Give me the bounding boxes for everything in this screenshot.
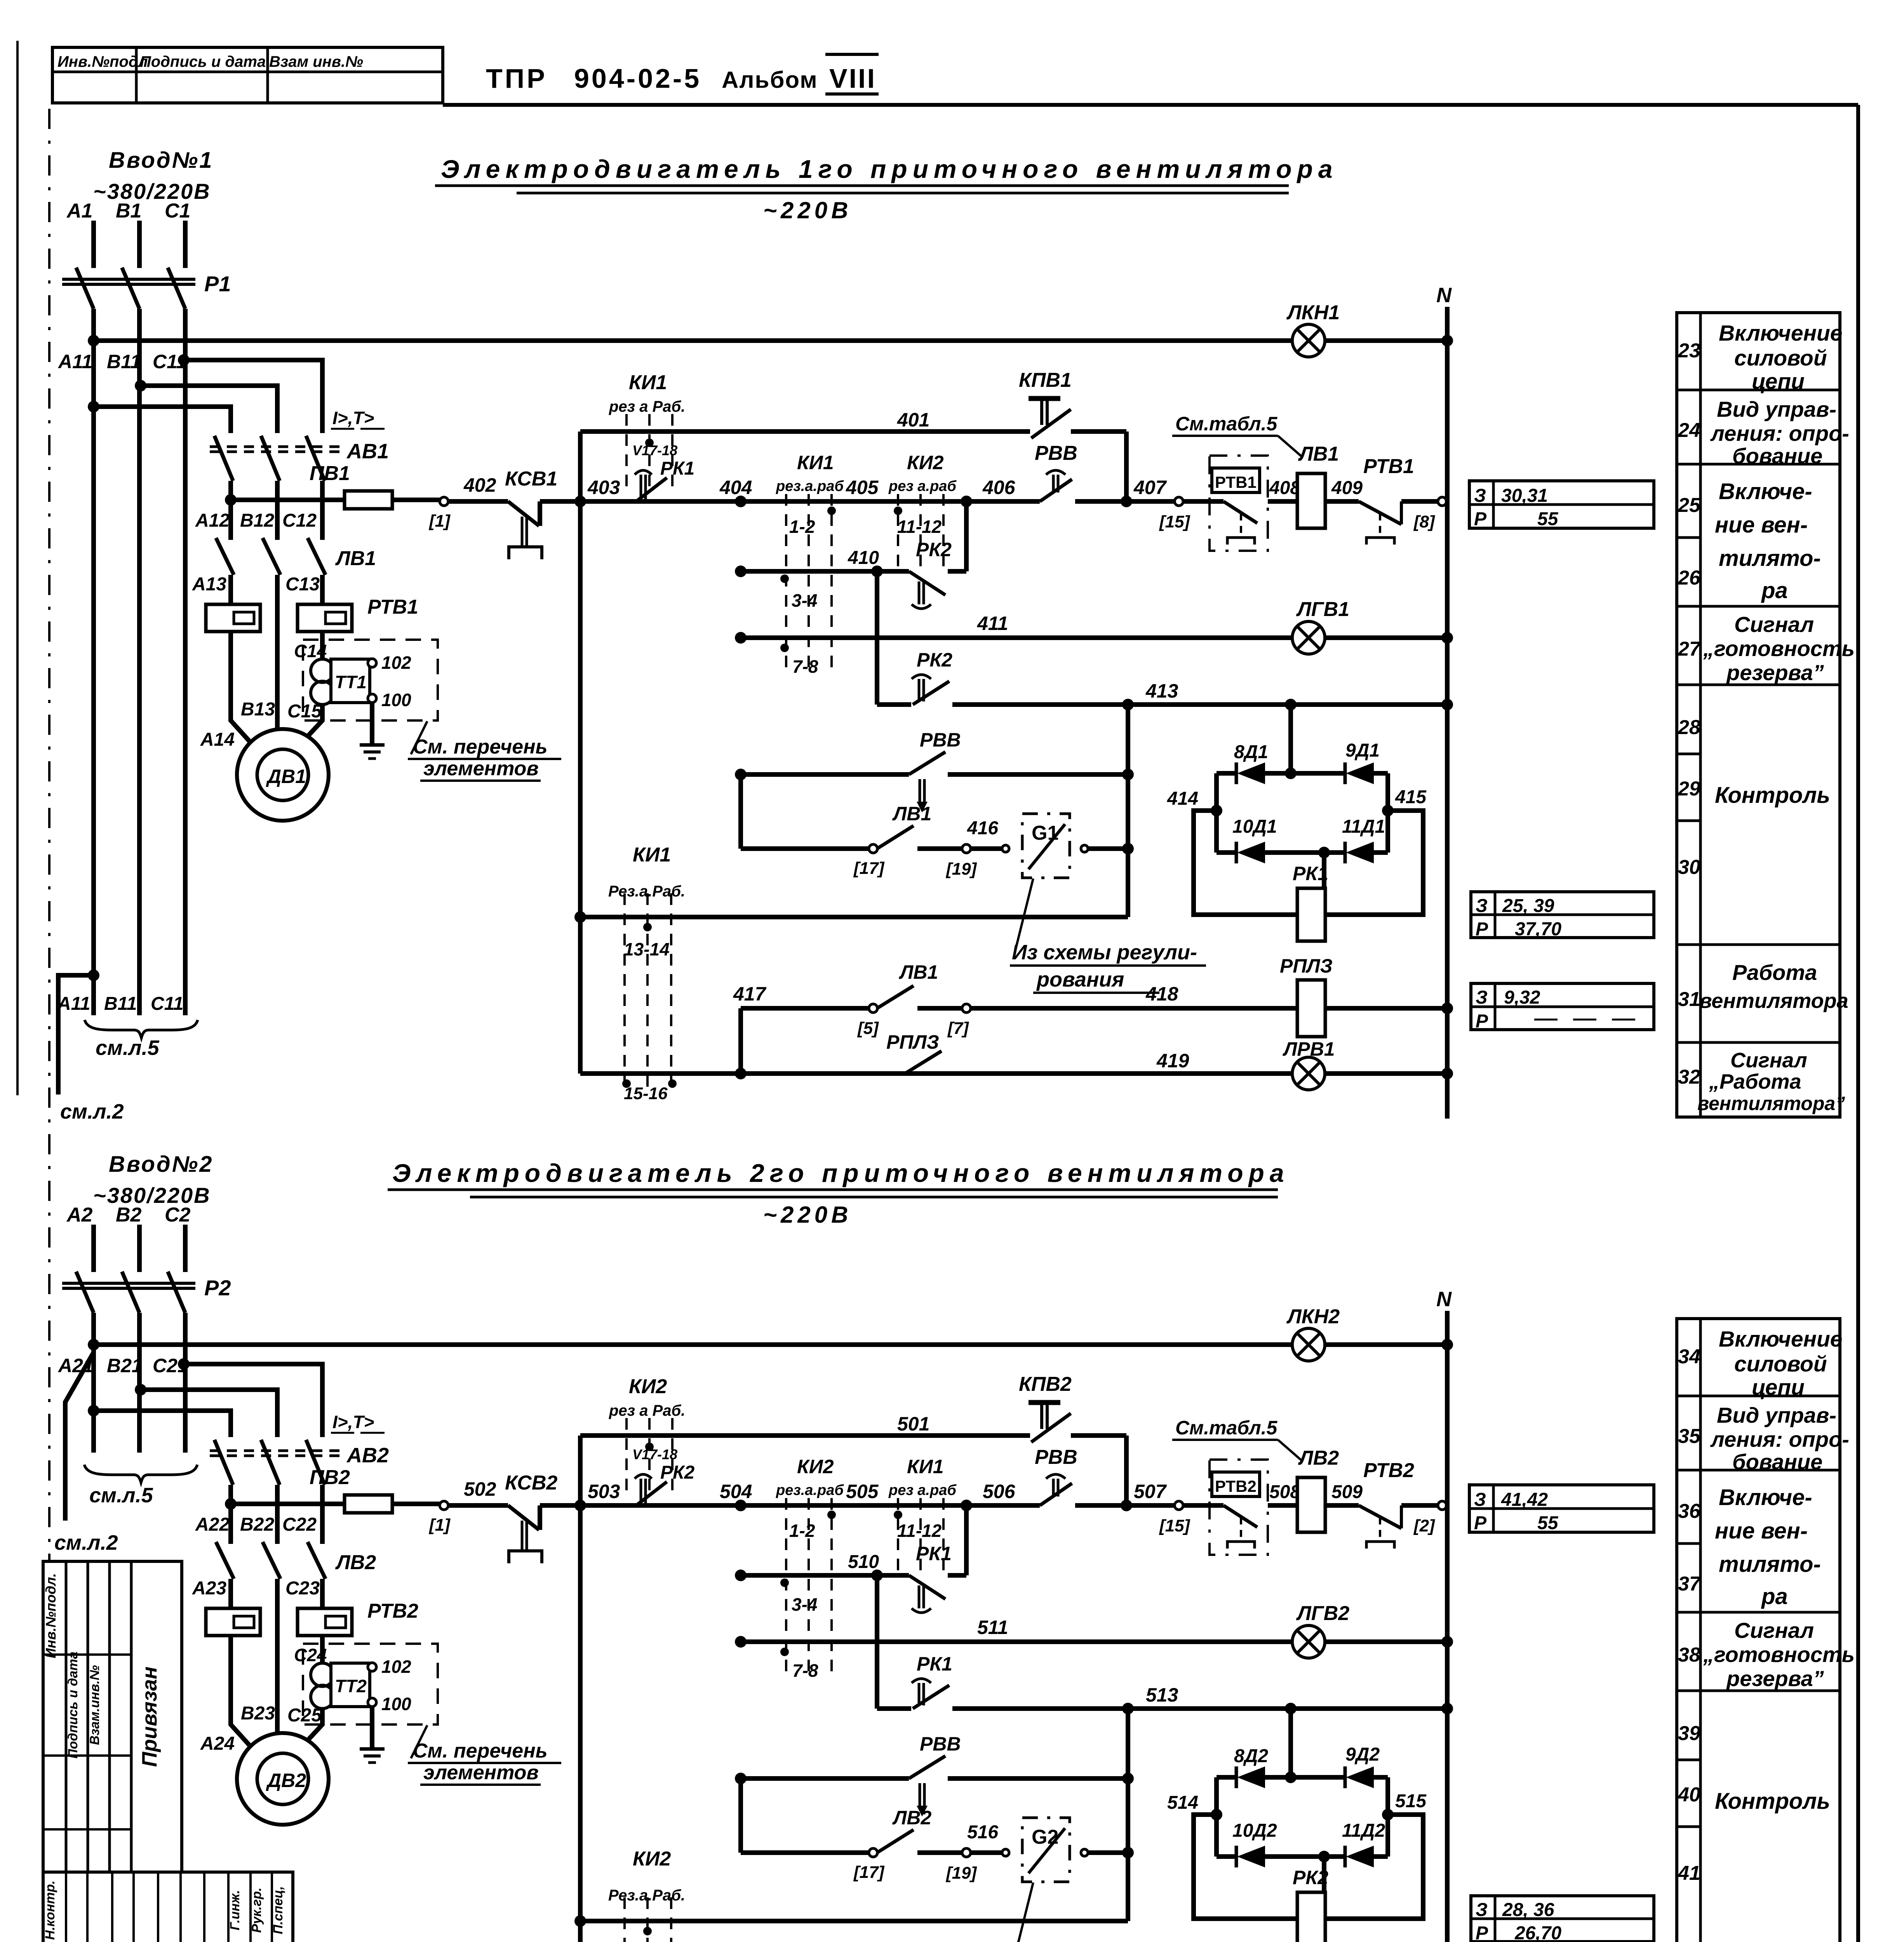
svg-text:резерва”: резерва”: [1726, 660, 1824, 685]
terminal 102: [368, 1667, 370, 1671]
wire B tap to breaker: [141, 1390, 277, 1437]
svg-text:РВВ: РВВ: [1035, 442, 1077, 465]
svg-text:ления: опро-: ления: опро-: [1710, 1427, 1849, 1451]
svg-text:11-12: 11-12: [897, 517, 942, 537]
svg-text:А14: А14: [200, 729, 235, 750]
svg-text:КПВ2: КПВ2: [1019, 1373, 1072, 1396]
wire rung 413: [875, 1575, 879, 1709]
svg-text:КИ1: КИ1: [797, 452, 834, 473]
svg-text:АВ1: АВ1: [346, 440, 389, 463]
left sheet edge line: [16, 41, 19, 1095]
svg-text:ЛВ1: ЛВ1: [335, 547, 376, 570]
svg-text:413: 413: [1145, 680, 1178, 702]
ref box 41,42: [1469, 1485, 1654, 1532]
diode 10Д1: [1235, 842, 1238, 863]
svg-text:31: 31: [1678, 988, 1700, 1011]
svg-text:АВ2: АВ2: [346, 1444, 389, 1467]
wire right drop: [1126, 705, 1130, 917]
svg-text:36: 36: [1678, 1500, 1701, 1523]
svg-text:32: 32: [1678, 1066, 1700, 1088]
wire phase stubs A B C: [91, 221, 96, 268]
svg-text:1-2: 1-2: [789, 517, 815, 537]
lamp ЛГВ1: [1292, 621, 1325, 654]
ref box 9,32: [1471, 983, 1654, 1030]
brace see sheet 5 s2: [84, 1465, 197, 1483]
svg-text:Из схемы регули-: Из схемы регули-: [1012, 941, 1197, 964]
wire C tap to breaker: [184, 360, 322, 433]
wire rung 413: [875, 571, 879, 705]
svg-text:505: 505: [846, 1481, 879, 1502]
svg-text:КИ1: КИ1: [629, 371, 667, 394]
svg-text:401: 401: [897, 409, 929, 431]
svg-text:[1]: [1]: [428, 1516, 451, 1535]
svg-text:V17-18: V17-18: [632, 1446, 677, 1462]
svg-text:26: 26: [1678, 567, 1701, 589]
svg-text:В22: В22: [240, 1514, 274, 1535]
node 515: [1382, 1809, 1394, 1820]
svg-text:ЛВ1: ЛВ1: [899, 961, 938, 983]
svg-text:КИ2: КИ2: [797, 1456, 834, 1477]
svg-text:КСВ2: КСВ2: [505, 1472, 557, 1494]
wire up link: [964, 1505, 969, 1575]
svg-text:В12: В12: [240, 510, 274, 531]
wire bridge bottom row: [1217, 1854, 1236, 1859]
wire main rung: [580, 499, 1040, 504]
svg-text:Инв.№подл.: Инв.№подл.: [43, 1573, 59, 1658]
svg-text:ДВ1: ДВ1: [266, 766, 306, 787]
diode 10Д2: [1235, 1846, 1238, 1867]
svg-text:25, 39: 25, 39: [1502, 896, 1554, 916]
relay contact РТВ2 in box: [1210, 1460, 1268, 1555]
svg-text:РВВ: РВВ: [1035, 1446, 1077, 1469]
svg-text:30,31: 30,31: [1501, 486, 1548, 506]
node 404: [735, 496, 747, 507]
callout from regulator: [1015, 1883, 1033, 1942]
svg-text:РТВ1: РТВ1: [1215, 473, 1257, 491]
svg-text:Включение: Включение: [1719, 1327, 1843, 1352]
right function table: [1677, 1319, 1840, 1942]
svg-text:Р: Р: [1476, 1923, 1488, 1942]
svg-text:39: 39: [1678, 1722, 1700, 1745]
dashed element box: [303, 1644, 438, 1724]
svg-text:[1]: [1]: [428, 512, 451, 531]
svg-text:В2: В2: [116, 1204, 142, 1226]
svg-text:С12: С12: [282, 510, 317, 531]
svg-text:Р: Р: [1474, 1513, 1487, 1533]
wire see sheet 2 link: [88, 969, 99, 981]
svg-text:26,70: 26,70: [1514, 1923, 1561, 1942]
node 514: [1211, 1809, 1222, 1820]
svg-text:см.л.5: см.л.5: [96, 1036, 160, 1060]
svg-text:504: 504: [720, 1481, 752, 1502]
wire 401 top: [580, 1433, 1030, 1438]
svg-text:РТВ2: РТВ2: [1215, 1477, 1257, 1495]
node С21: [178, 1358, 190, 1370]
lamp ЛКН1: [1292, 324, 1325, 357]
svg-text:Р2: Р2: [204, 1276, 231, 1300]
svg-text:Взам.инв.№: Взам.инв.№: [87, 1665, 102, 1745]
svg-text:402: 402: [463, 474, 496, 496]
wire bridge top row: [1217, 771, 1236, 776]
svg-text:[15]: [15]: [1159, 1516, 1190, 1535]
svg-text:ления: опро-: ления: опро-: [1710, 421, 1849, 445]
svg-text:цепи: цепи: [1752, 1375, 1805, 1400]
svg-text:Работа: Работа: [1732, 960, 1817, 985]
svg-text:403: 403: [587, 477, 620, 498]
svg-text:502: 502: [464, 1478, 496, 1500]
terminal circle on N: [1438, 1501, 1446, 1510]
svg-text:Г.инж.: Г.инж.: [228, 1890, 242, 1930]
svg-text:Включе-: Включе-: [1719, 1485, 1812, 1510]
svg-text:~380/220В: ~380/220В: [93, 1183, 211, 1208]
svg-text:510: 510: [848, 1552, 879, 1572]
svg-text:41: 41: [1678, 1862, 1700, 1885]
terminal 100: [368, 1698, 376, 1707]
left dash-dot frame line: [48, 109, 50, 1560]
svg-text:РК2: РК2: [916, 539, 952, 560]
svg-text:А22: А22: [195, 1514, 230, 1535]
wire lamp feed: [88, 1405, 99, 1416]
svg-text:Подпись и дата: Подпись и дата: [66, 1651, 80, 1759]
wire rung 13-14: [574, 911, 586, 923]
contact РВВ delayed: [909, 752, 945, 774]
svg-text:цепи: цепи: [1752, 369, 1805, 394]
right frame line: [1856, 105, 1860, 1942]
terminal [1]: [440, 497, 448, 506]
node 506: [961, 1500, 972, 1511]
wire rung 417: [738, 1008, 743, 1074]
svg-text:501: 501: [897, 1413, 929, 1435]
svg-text:КИ2: КИ2: [633, 1848, 671, 1870]
wire 402 feed: [231, 498, 345, 502]
svg-text:А2: А2: [66, 1204, 93, 1226]
svg-text:РК1: РК1: [917, 1653, 952, 1675]
svg-text:[19]: [19]: [945, 860, 977, 879]
disconnect switch Р1: [76, 268, 94, 309]
svg-text:24: 24: [1678, 419, 1700, 442]
svg-text:417: 417: [733, 983, 767, 1005]
contactor coil ЛВ2: [1297, 1477, 1325, 1532]
svg-text:П.спец,: П.спец,: [271, 1886, 285, 1934]
wire bridge feed: [1288, 1709, 1293, 1777]
svg-text:25: 25: [1678, 494, 1701, 517]
wire phase buses: [91, 309, 96, 1015]
svg-text:Подпись и дата: Подпись и дата: [140, 53, 266, 70]
node feed junction: [225, 494, 237, 506]
node 504: [735, 1500, 747, 1511]
wire 402 feed: [231, 1502, 345, 1506]
wire rung G: [738, 774, 743, 849]
svg-text:тилято-: тилято-: [1719, 1552, 1821, 1577]
svg-text:ние вен-: ние вен-: [1715, 1518, 1808, 1544]
svg-text:410: 410: [848, 548, 879, 568]
thermal relay heaters РТВ2: [206, 1608, 260, 1636]
node 406: [961, 496, 972, 507]
callout see element list: [411, 721, 427, 754]
wire to signal lamp: [94, 338, 1292, 343]
svg-text:См. перечень: См. перечень: [413, 1740, 548, 1762]
node 414: [1211, 805, 1222, 816]
svg-text:511: 511: [977, 1617, 1008, 1638]
svg-text:516: 516: [967, 1822, 998, 1843]
node 415: [1382, 805, 1394, 816]
diode 11Д1: [1344, 842, 1347, 863]
wire main rung: [580, 1503, 1040, 1508]
contactor power contacts ЛВ2: [216, 1542, 234, 1579]
node 403: [574, 496, 586, 507]
svg-text:G1: G1: [1032, 822, 1058, 844]
svg-text:514: 514: [1167, 1792, 1198, 1813]
svg-text:100: 100: [381, 1694, 411, 1714]
svg-text:см.л.5: см.л.5: [89, 1484, 153, 1507]
svg-text:ТТ2: ТТ2: [335, 1676, 367, 1696]
svg-text:7-8: 7-8: [792, 1660, 818, 1681]
svg-text:В21: В21: [107, 1355, 143, 1376]
svg-text:28: 28: [1678, 716, 1700, 739]
wire rung 411: [735, 632, 747, 644]
svg-text:~220В: ~220В: [763, 197, 852, 223]
brace see sheet 5: [85, 1020, 198, 1038]
svg-text:Н.контр.: Н.контр.: [43, 1881, 57, 1940]
node feed junction: [225, 1498, 237, 1510]
wire A tap to breaker: [94, 407, 231, 433]
svg-text:ЛКН2: ЛКН2: [1286, 1305, 1340, 1328]
motor ДВ2: [237, 1733, 329, 1825]
wire bridge feed: [1288, 705, 1293, 773]
svg-text:11Д2: 11Д2: [1342, 1820, 1385, 1841]
svg-text:С13: С13: [285, 574, 320, 595]
svg-text:13-14: 13-14: [624, 939, 670, 959]
svg-text:В23: В23: [241, 1703, 275, 1724]
svg-text:3-4: 3-4: [792, 590, 817, 611]
svg-text:27: 27: [1678, 638, 1701, 660]
svg-text:37,70: 37,70: [1515, 919, 1561, 940]
terminal 100: [368, 694, 376, 703]
svg-text:[19]: [19]: [945, 1864, 977, 1883]
svg-text:N: N: [1436, 284, 1452, 307]
svg-text:9,32: 9,32: [1504, 987, 1540, 1008]
svg-text:ТПР: ТПР: [486, 63, 547, 94]
svg-text:ТТ1: ТТ1: [335, 672, 367, 692]
svg-text:тилято-: тилято-: [1719, 546, 1821, 571]
svg-text:29: 29: [1678, 778, 1700, 800]
wire B tap to breaker: [141, 386, 277, 433]
svg-text:Инв.№подл: Инв.№подл: [57, 53, 148, 70]
svg-text:ра: ра: [1761, 1584, 1788, 1609]
svg-text:404: 404: [719, 477, 752, 498]
diode 8Д1: [1235, 762, 1238, 784]
svg-text:9Д2: 9Д2: [1345, 1744, 1380, 1765]
svg-text:506: 506: [983, 1481, 1016, 1502]
wire rung 410: [735, 1570, 747, 1581]
svg-text:См. перечень: См. перечень: [413, 736, 548, 758]
ground: [370, 703, 374, 745]
disconnect switch Р2: [76, 1272, 94, 1313]
svg-text:РК2: РК2: [660, 1462, 695, 1483]
svg-text:[5]: [5]: [857, 1019, 879, 1038]
svg-text:Электродвигатель 1го приточног: Электродвигатель 1го приточного вентилят…: [441, 155, 1338, 183]
svg-text:См.табл.5: См.табл.5: [1175, 413, 1278, 435]
contactor coil ЛВ1: [1297, 473, 1325, 528]
wire rung 13-14: [574, 1915, 586, 1927]
svg-text:405: 405: [846, 477, 879, 498]
svg-text:А12: А12: [195, 510, 230, 531]
svg-text:8Д1: 8Д1: [1234, 742, 1268, 762]
svg-text:I˃,Т˃: I˃,Т˃: [332, 1412, 374, 1432]
svg-text:15-16: 15-16: [624, 1084, 668, 1103]
svg-text:N: N: [1436, 1288, 1452, 1311]
svg-text:3-4: 3-4: [792, 1594, 817, 1615]
svg-text:10Д1: 10Д1: [1232, 816, 1277, 837]
svg-text:Р: Р: [1476, 1011, 1488, 1032]
right function table: [1677, 313, 1840, 1117]
wire rung 411: [735, 1636, 747, 1648]
svg-text:8Д2: 8Д2: [1234, 1746, 1268, 1766]
dashed element box: [303, 640, 438, 720]
svg-text:ЛКН1: ЛКН1: [1286, 301, 1340, 324]
svg-text:КИ1: КИ1: [907, 1456, 944, 1477]
svg-text:В13: В13: [241, 699, 275, 720]
svg-text:В1: В1: [116, 200, 141, 222]
lamp ЛКН2: [1292, 1328, 1325, 1361]
svg-text:вентилятора”: вентилятора”: [1697, 1093, 1845, 1114]
svg-text:38: 38: [1678, 1644, 1700, 1666]
svg-text:102: 102: [381, 653, 411, 673]
ground: [370, 1707, 374, 1749]
svg-text:РТВ2: РТВ2: [367, 1600, 418, 1622]
svg-text:С22: С22: [282, 1514, 317, 1535]
wire rung РВВ: [735, 769, 747, 780]
svg-text:40: 40: [1678, 1784, 1700, 1806]
svg-text:ние вен-: ние вен-: [1715, 512, 1808, 538]
wire rung G: [738, 1778, 743, 1853]
svg-text:30: 30: [1678, 856, 1700, 879]
svg-text:ПВ2: ПВ2: [310, 1466, 350, 1489]
svg-text:КИ2: КИ2: [907, 452, 944, 473]
wire to signal lamp: [94, 1342, 1292, 1347]
svg-text:Контроль: Контроль: [1715, 1789, 1830, 1814]
svg-text:„готовность: „готовность: [1703, 1642, 1855, 1667]
top horizontal frame line: [443, 103, 1858, 107]
svg-text:Привязан: Привязан: [138, 1667, 161, 1767]
terminal [1]: [440, 1501, 448, 1510]
wire breaker legs: [228, 1485, 233, 1544]
svg-text:[2]: [2]: [1413, 1516, 1435, 1535]
svg-text:ПВ1: ПВ1: [310, 462, 350, 485]
lamp ЛГВ2: [1292, 1625, 1325, 1658]
svg-text:РТВ2: РТВ2: [1363, 1459, 1414, 1482]
svg-text:В11: В11: [107, 351, 141, 372]
contactor power contacts ЛВ1: [216, 538, 234, 575]
svg-text:ЛВ1: ЛВ1: [892, 803, 931, 825]
svg-text:рез.а.раб: рез.а.раб: [776, 1482, 844, 1498]
svg-text:ЛВ2: ЛВ2: [892, 1807, 931, 1829]
lamp ЛРВ1: [1292, 1057, 1325, 1090]
svg-text:Ввод№1: Ввод№1: [109, 148, 213, 173]
svg-text:вентилятора: вентилятора: [1699, 989, 1848, 1013]
svg-text:407: 407: [1133, 477, 1167, 498]
svg-text:ЛВ2: ЛВ2: [1298, 1447, 1339, 1469]
wire left rail: [578, 1436, 583, 1942]
wire motor leads: [231, 1636, 256, 1753]
svg-text:КПВ1: КПВ1: [1019, 369, 1072, 392]
svg-text:37: 37: [1678, 1573, 1701, 1595]
svg-text:силовой: силовой: [1734, 346, 1827, 371]
svg-text:ЛВ1: ЛВ1: [1298, 443, 1339, 465]
svg-text:904-02-5: 904-02-5: [574, 63, 701, 94]
circuit breaker АВ2: [214, 1440, 233, 1485]
regulator box G1: [1022, 814, 1070, 878]
wire phase buses: [91, 1313, 96, 1453]
svg-text:РТВ1: РТВ1: [1363, 455, 1414, 478]
relay contact РТВ1 in box: [1210, 456, 1268, 551]
svg-text:РК2: РК2: [1293, 1867, 1328, 1888]
svg-text:VIII: VIII: [829, 63, 876, 94]
svg-text:34: 34: [1678, 1345, 1700, 1368]
svg-text:ЛГВ1: ЛГВ1: [1296, 598, 1349, 621]
diode 11Д2: [1344, 1846, 1347, 1867]
svg-text:С2: С2: [165, 1204, 191, 1226]
svg-text:11-12: 11-12: [897, 1521, 942, 1541]
ref box 28, 36: [1471, 1896, 1654, 1942]
svg-text:Р: Р: [1474, 509, 1487, 529]
relay coil РПЛЗ: [1297, 980, 1325, 1037]
relay coil РК1: [1322, 853, 1326, 888]
svg-text:409: 409: [1331, 478, 1363, 498]
svg-text:З: З: [1474, 486, 1486, 506]
svg-text:В11: В11: [104, 994, 137, 1014]
current transformer ТТ2: [311, 1663, 334, 1686]
diode 9Д2: [1344, 1766, 1347, 1788]
svg-text:Взам инв.№: Взам инв.№: [269, 53, 363, 70]
motor ДВ1: [237, 729, 329, 821]
svg-text:Контроль: Контроль: [1715, 783, 1830, 808]
svg-text:Вид управ-: Вид управ-: [1717, 397, 1836, 421]
svg-text:Рук.гр.: Рук.гр.: [249, 1888, 264, 1933]
svg-text:Ввод№2: Ввод№2: [109, 1152, 213, 1177]
svg-text:ЛГВ2: ЛГВ2: [1296, 1602, 1349, 1625]
svg-text:100: 100: [381, 690, 411, 710]
svg-text:513: 513: [1146, 1684, 1178, 1706]
svg-text:Р1: Р1: [204, 271, 231, 296]
diode 8Д2: [1235, 1766, 1238, 1788]
contact РВВ delayed: [909, 1756, 945, 1778]
svg-text:I˃,Т˃: I˃,Т˃: [332, 408, 374, 428]
svg-text:А23: А23: [192, 1578, 226, 1599]
svg-text:элементов: элементов: [423, 757, 539, 780]
svg-text:рования: рования: [1036, 968, 1124, 991]
wire breaker legs: [228, 481, 233, 540]
svg-text:С21: С21: [153, 1355, 188, 1376]
svg-text:рез а Раб.: рез а Раб.: [609, 1402, 685, 1419]
svg-text:элементов: элементов: [423, 1761, 539, 1784]
wire lamp feed: [88, 401, 99, 412]
svg-text:С11: С11: [153, 351, 187, 372]
svg-text:З: З: [1476, 1900, 1488, 1920]
wire bridge sides: [1214, 1777, 1219, 1857]
svg-text:см.л.2: см.л.2: [54, 1531, 118, 1554]
svg-text:Сигнал: Сигнал: [1730, 1049, 1807, 1072]
node 503: [574, 1500, 586, 1511]
svg-text:7-8: 7-8: [792, 656, 818, 677]
wire see sheet 2 link s2: [65, 1352, 94, 1521]
svg-text:РК1: РК1: [916, 1543, 952, 1564]
circuit breaker АВ1: [214, 436, 233, 481]
svg-text:бование: бование: [1732, 1450, 1822, 1474]
svg-text:см.л.2: см.л.2: [60, 1100, 124, 1123]
svg-text:ра: ра: [1761, 578, 1788, 603]
svg-text:З: З: [1474, 1490, 1486, 1510]
